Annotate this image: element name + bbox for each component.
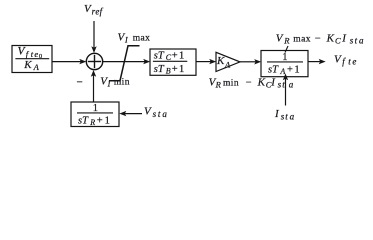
svg-text:B: B <box>166 67 171 76</box>
svg-text:1: 1 <box>179 64 184 75</box>
svg-text:1: 1 <box>105 115 110 126</box>
limiter L1 saturation symbol <box>109 46 140 81</box>
label VI min <box>100 75 130 88</box>
svg-text:sT: sT <box>78 115 89 126</box>
svg-text:R: R <box>215 80 222 90</box>
svg-text:R: R <box>283 36 290 46</box>
svg-text:a: a <box>289 80 294 90</box>
svg-text:−: − <box>77 77 83 89</box>
svg-text:max: max <box>133 33 151 43</box>
svg-text:s: s <box>350 36 354 46</box>
svg-text:a: a <box>290 112 295 122</box>
wire Vsta into G4 <box>119 111 142 116</box>
wire G0 to summing junction <box>52 59 86 64</box>
wire G1 to amplifier <box>196 59 216 64</box>
label VI max <box>118 31 151 44</box>
svg-text:C: C <box>335 36 341 46</box>
wire amplifier to block G2 <box>240 59 261 64</box>
output wire Vfte <box>308 59 326 64</box>
block G0: V_fte0/K_A <box>12 46 52 73</box>
svg-text:sT: sT <box>268 64 279 75</box>
amplifier A1: triangle KA <box>216 52 240 71</box>
svg-text:R: R <box>89 118 95 127</box>
label Vfte <box>334 54 356 67</box>
svg-text:+: + <box>97 115 103 126</box>
svg-text:1: 1 <box>282 52 287 63</box>
svg-text:A: A <box>224 60 231 70</box>
svg-text:s: s <box>278 80 282 90</box>
svg-text:1: 1 <box>179 50 184 61</box>
wire Vref to summing junction <box>91 21 96 53</box>
svg-text:I: I <box>107 79 111 88</box>
block G1: (sTC+1)/(sTB+1) <box>150 49 196 76</box>
svg-text:a: a <box>162 109 167 119</box>
svg-text:1: 1 <box>93 103 98 114</box>
svg-text:max: max <box>293 35 311 45</box>
svg-text:min: min <box>223 78 239 88</box>
label Vsta <box>144 106 167 120</box>
svg-text:K: K <box>326 33 335 45</box>
svg-text:sT: sT <box>154 50 165 61</box>
svg-text:K: K <box>23 59 32 71</box>
label lower limit VRmin - KC Ista <box>209 76 294 89</box>
svg-text:s: s <box>281 112 285 122</box>
svg-text:K: K <box>257 76 266 88</box>
svg-text:sT: sT <box>154 64 165 75</box>
svg-text:A: A <box>279 67 285 76</box>
upper limit tick into G2 <box>285 46 288 53</box>
svg-text:e: e <box>34 49 38 59</box>
minus sign at summing junction lower input <box>77 77 83 89</box>
svg-text:+: + <box>172 64 178 75</box>
svg-text:I: I <box>124 35 128 44</box>
block G2: 1/(sTA+1) <box>261 51 308 77</box>
svg-text:−: − <box>246 77 252 88</box>
svg-text:+: + <box>287 64 293 75</box>
label Ista <box>274 108 295 122</box>
svg-text:e: e <box>352 57 356 67</box>
svg-text:K: K <box>216 55 225 67</box>
svg-text:−: − <box>315 34 321 45</box>
svg-text:s: s <box>153 109 157 119</box>
svg-text:A: A <box>33 62 40 72</box>
label Vref <box>84 3 104 16</box>
wire summing junction to block G1 <box>103 59 150 64</box>
wire from block G4 up to summing junction <box>91 70 96 102</box>
svg-text:1: 1 <box>294 64 299 75</box>
wire Ista into bottom of G2 <box>283 74 288 106</box>
svg-text:min: min <box>114 77 130 87</box>
block G4: 1/(sTR+1) <box>71 102 119 127</box>
svg-text:a: a <box>359 36 364 46</box>
svg-text:+: + <box>172 50 178 61</box>
label upper limit VRmax - KC Ista <box>276 33 364 46</box>
summing junction S1 <box>86 53 102 69</box>
